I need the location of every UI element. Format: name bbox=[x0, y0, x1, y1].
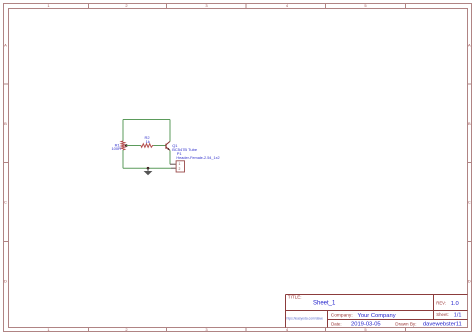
svg-text:A: A bbox=[4, 43, 7, 48]
wire bottom bbox=[123, 167, 171, 169]
connector P1 bbox=[176, 161, 184, 172]
svg-text:Company:: Company: bbox=[331, 313, 353, 319]
svg-text:1/1: 1/1 bbox=[454, 313, 462, 319]
frame column numbers bottom bbox=[47, 327, 367, 332]
svg-text:1k: 1k bbox=[146, 139, 150, 144]
svg-text:Drawn By:: Drawn By: bbox=[395, 321, 416, 326]
potentiometer R1 bbox=[121, 141, 126, 150]
svg-text:1.0: 1.0 bbox=[451, 301, 459, 307]
wire left upper bbox=[122, 120, 124, 142]
svg-text:D: D bbox=[4, 279, 7, 284]
wire R2 to base bbox=[153, 145, 166, 147]
svg-text:C: C bbox=[468, 200, 471, 205]
svg-text:B: B bbox=[4, 121, 7, 126]
svg-text:TITLE:: TITLE: bbox=[288, 295, 302, 300]
svg-text:100R: 100R bbox=[111, 146, 121, 151]
junction dot R1 wiper bbox=[125, 144, 128, 147]
svg-text:REV:: REV: bbox=[436, 300, 446, 305]
svg-text:Sheet:: Sheet: bbox=[436, 312, 448, 317]
pin 2 stub bbox=[171, 167, 176, 169]
svg-text:2019-03-05: 2019-03-05 bbox=[351, 322, 381, 328]
svg-text:A: A bbox=[468, 43, 471, 48]
wire top bbox=[123, 119, 170, 121]
svg-text:1: 1 bbox=[179, 162, 181, 166]
svg-text:Your Company: Your Company bbox=[358, 313, 396, 319]
svg-text:2: 2 bbox=[179, 167, 181, 171]
pin 1 stub bbox=[170, 163, 176, 165]
svg-text:C: C bbox=[4, 200, 7, 205]
svg-text:Date:: Date: bbox=[331, 321, 342, 326]
frame row letters right bbox=[468, 43, 471, 284]
svg-text:Header-Female-2.54_1x2: Header-Female-2.54_1x2 bbox=[176, 156, 219, 160]
svg-text:Sheet_1: Sheet_1 bbox=[313, 301, 336, 307]
svg-text:htps:/leasyeda.com/dave: htps:/leasyeda.com/dave bbox=[287, 316, 324, 320]
ground bbox=[144, 167, 153, 175]
frame row letters left bbox=[4, 43, 7, 284]
svg-text:B: B bbox=[468, 121, 471, 126]
transistor Q1 bbox=[166, 141, 170, 150]
wire collector up bbox=[169, 120, 171, 142]
svg-text:davewebster11: davewebster11 bbox=[423, 322, 462, 328]
title block lines bbox=[286, 295, 468, 328]
wire wiper to R2 bbox=[126, 145, 141, 147]
resistor R2 bbox=[141, 144, 154, 148]
svg-text:D: D bbox=[468, 279, 471, 284]
wire emitter down bbox=[169, 150, 171, 164]
frame column numbers top bbox=[47, 3, 367, 8]
wire left lower bbox=[122, 150, 124, 168]
